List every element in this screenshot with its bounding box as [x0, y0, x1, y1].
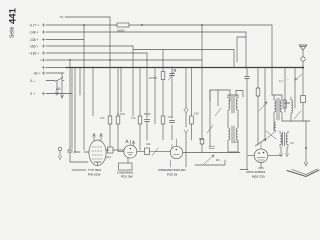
- verticals x70 x72 pair: [70, 60, 80, 152]
- svg-text:Seite: Seite: [10, 26, 16, 38]
- resistor box on x163 upper: [161, 72, 165, 80]
- antenna input bottom left: [58, 147, 62, 151]
- capacitor C at x172: [170, 121, 175, 123]
- rail r2 +177: [46, 24, 272, 26]
- trimmer arrows right of T3: [204, 146, 215, 164]
- vertical/jog from r5: [133, 46, 234, 116]
- switch diagonal x218: [215, 108, 221, 116]
- trimmer arrow near x265: [259, 102, 267, 111]
- svg-text:-148 +: -148 +: [29, 30, 39, 34]
- tube T2 (circle): [124, 145, 137, 158]
- vertical from r4: [83, 25, 85, 150]
- switch cross near TR3: [266, 131, 276, 139]
- capacitor at x247: [245, 68, 250, 170]
- switch diagonal x210: [207, 125, 213, 133]
- components between T2 T3: [145, 148, 150, 155]
- rail r7: [46, 59, 202, 61]
- svg-text:CP03 3/45W1: CP03 3/45W1: [246, 170, 266, 174]
- component row resistor boxes: [108, 116, 112, 124]
- svg-text:0,4/19: 0,4/19: [117, 112, 125, 116]
- coupling cap: [68, 148, 73, 162]
- vertical from r6: [146, 53, 148, 118]
- resistor box R 5W52: [117, 23, 129, 27]
- arrows on terminals: [56, 92, 64, 98]
- svg-text:+: +: [40, 58, 42, 62]
- svg-text:17k: 17k: [131, 116, 136, 120]
- svg-text:-165 +: -165 +: [29, 44, 39, 48]
- svg-text:2000: 2000: [284, 101, 290, 105]
- rail r5: [46, 45, 133, 47]
- bus (thick): [66, 67, 303, 69]
- rail r10: [46, 93, 72, 95]
- shield can bracket: [210, 90, 243, 101]
- rail r6: [46, 52, 147, 54]
- trimmer cap x172: [170, 74, 175, 76]
- middle verticals from bus to component row: [92, 68, 94, 117]
- svg-text:-138 +: -138 +: [29, 38, 39, 42]
- svg-text:PC0 3W: PC0 3W: [121, 175, 133, 179]
- svg-text:7/1k: 7/1k: [168, 115, 174, 119]
- svg-text:5W52: 5W52: [117, 29, 125, 33]
- svg-text:C500/45W 5W0,321: C500/45W 5W0,321: [158, 168, 186, 172]
- tube T4: [254, 149, 268, 163]
- TR3 bottom lead terminals: [281, 147, 287, 154]
- title Seite 441: [8, 7, 19, 38]
- svg-text:µF1: µF1: [106, 155, 111, 159]
- rail r9 switch: [46, 78, 64, 82]
- rail r3: [46, 32, 246, 62]
- transformer TR3 (output, bottom right): [280, 131, 288, 147]
- vertical x163 from jog: [162, 50, 164, 117]
- svg-text:PIN 52W: PIN 52W: [88, 173, 100, 177]
- variable element arrows x180: [184, 107, 188, 133]
- vertical from r3 right end: [245, 32, 247, 68]
- svg-text:50/W: 50/W: [144, 112, 151, 116]
- tube T3 (circle): [170, 146, 182, 158]
- svg-text:M3: M3: [216, 158, 220, 162]
- svg-text:17k: 17k: [100, 116, 105, 120]
- svg-text:+177 +: +177 +: [29, 23, 39, 27]
- svg-text:M03 C30: M03 C30: [252, 175, 265, 179]
- svg-text:TYP 3W1: TYP 3W1: [88, 168, 101, 172]
- transformer TR1 (middle right): [228, 95, 238, 143]
- svg-text:800: 800: [199, 137, 204, 141]
- rail r8: [46, 72, 64, 74]
- right column small parts: [302, 68, 304, 122]
- tube T1 (oval): [89, 140, 106, 166]
- left verticals to terminals: [56, 81, 58, 96]
- rail labels: [29, 23, 61, 96]
- terminal plus marks: [42, 24, 45, 96]
- rail r4: [46, 39, 84, 41]
- small chokes cluster: [283, 100, 286, 108]
- svg-text:X +: X +: [30, 92, 35, 96]
- ground chevron: [287, 170, 319, 177]
- coil section B: [274, 122, 276, 130]
- svg-text:+182 +: +182 +: [29, 51, 39, 55]
- svg-text:X—: X—: [30, 79, 36, 83]
- rail r1: [60, 16, 110, 18]
- junction dots on bus: [69, 24, 304, 69]
- vertical from r1: [109, 17, 111, 68]
- svg-text:0,1: 0,1: [279, 79, 283, 83]
- svg-text:10k: 10k: [146, 142, 151, 146]
- tiny value labels: [100, 76, 289, 144]
- svg-text:100: 100: [194, 112, 199, 116]
- small box between T1 T2: [108, 147, 114, 153]
- bus left riser: [46, 67, 66, 69]
- transformer TR2 (right): [274, 97, 282, 121]
- capacitor C at x147: [145, 120, 150, 127]
- svg-text:PC0 26: PC0 26: [167, 173, 178, 177]
- long vertical x202: [201, 25, 203, 153]
- svg-text:441: 441: [8, 7, 19, 24]
- svg-text:-60 +: -60 +: [33, 71, 41, 75]
- svg-text:0,2: 0,2: [290, 141, 294, 145]
- svg-text:10/5W: 10/5W: [149, 76, 157, 80]
- antenna top right: [299, 45, 307, 57]
- vertical from r2 right end: [271, 25, 273, 95]
